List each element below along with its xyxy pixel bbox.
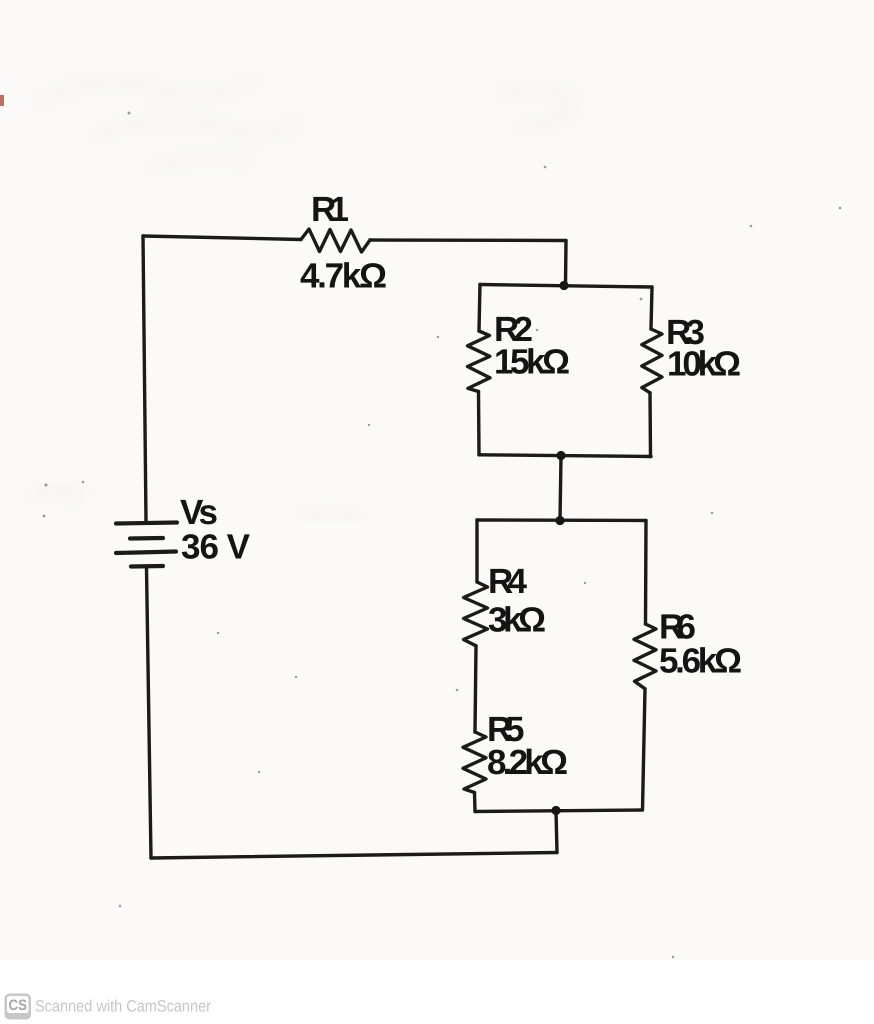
resistor R1	[301, 229, 370, 252]
svg-text:R1: R1	[311, 190, 349, 229]
wire right drop to node A	[564, 241, 568, 286]
svg-text:Vs: Vs	[180, 493, 218, 532]
svg-text:R4: R4	[488, 562, 528, 601]
wire left upper stub of R2	[479, 285, 480, 332]
resistor R5	[463, 732, 486, 793]
resistor R4	[464, 582, 488, 646]
svg-text:8.2kΩ: 8.2kΩ	[487, 743, 568, 782]
svg-text:15kΩ: 15kΩ	[494, 343, 570, 382]
CamScanner logo CS	[5, 994, 32, 1020]
wire right stub below R6	[643, 689, 646, 810]
scan specks	[43, 112, 842, 976]
node B junction dot	[556, 451, 565, 460]
wire top of series box R4 R6	[477, 518, 646, 522]
wire bottom of parallel box R2 R3	[479, 455, 651, 457]
svg-text:10kΩ: 10kΩ	[667, 345, 741, 384]
resistor R3	[642, 329, 662, 393]
wire between R4 and R5	[475, 646, 476, 732]
faint pink smudge top-left	[35, 80, 575, 170]
wire right stub above R6	[644, 521, 648, 625]
node C junction dot	[555, 516, 564, 525]
node A junction dot	[559, 281, 568, 290]
svg-text:3kΩ: 3kΩ	[488, 601, 546, 640]
wire bottom horizontal	[151, 853, 557, 859]
battery Vs	[116, 523, 177, 567]
white footer strip	[0, 960, 874, 1024]
wire left lower stub of R2	[477, 392, 481, 455]
wire top horizontal right of R1	[370, 238, 566, 242]
wire top of parallel box R2 R3	[480, 285, 652, 288]
wire top horizontal left of R1	[143, 236, 301, 240]
faint pink squiggle left middle	[30, 485, 360, 520]
wire left vertical lower	[147, 568, 152, 858]
wire bottom riser to node D	[556, 811, 557, 853]
wire middle connector node B to node C	[560, 457, 561, 521]
svg-text:Scanned with CamScanner: Scanned with CamScanner	[35, 998, 211, 1016]
svg-text:4.7kΩ: 4.7kΩ	[300, 257, 387, 296]
resistor R6	[634, 624, 656, 689]
wire left stub below R5	[473, 793, 477, 812]
wire bottom of series box	[475, 810, 642, 812]
wire left stub above R4	[475, 520, 478, 582]
svg-text:5.6kΩ: 5.6kΩ	[659, 642, 742, 681]
wire left vertical upper	[143, 236, 146, 521]
wire right lower stub of R3	[648, 393, 652, 457]
svg-text:CS: CS	[9, 997, 28, 1014]
red speck left edge	[0, 95, 4, 106]
wire right upper stub of R3	[651, 287, 652, 329]
resistor R2	[468, 331, 491, 392]
node D junction dot	[551, 806, 560, 815]
svg-text:36 V: 36 V	[181, 528, 251, 567]
